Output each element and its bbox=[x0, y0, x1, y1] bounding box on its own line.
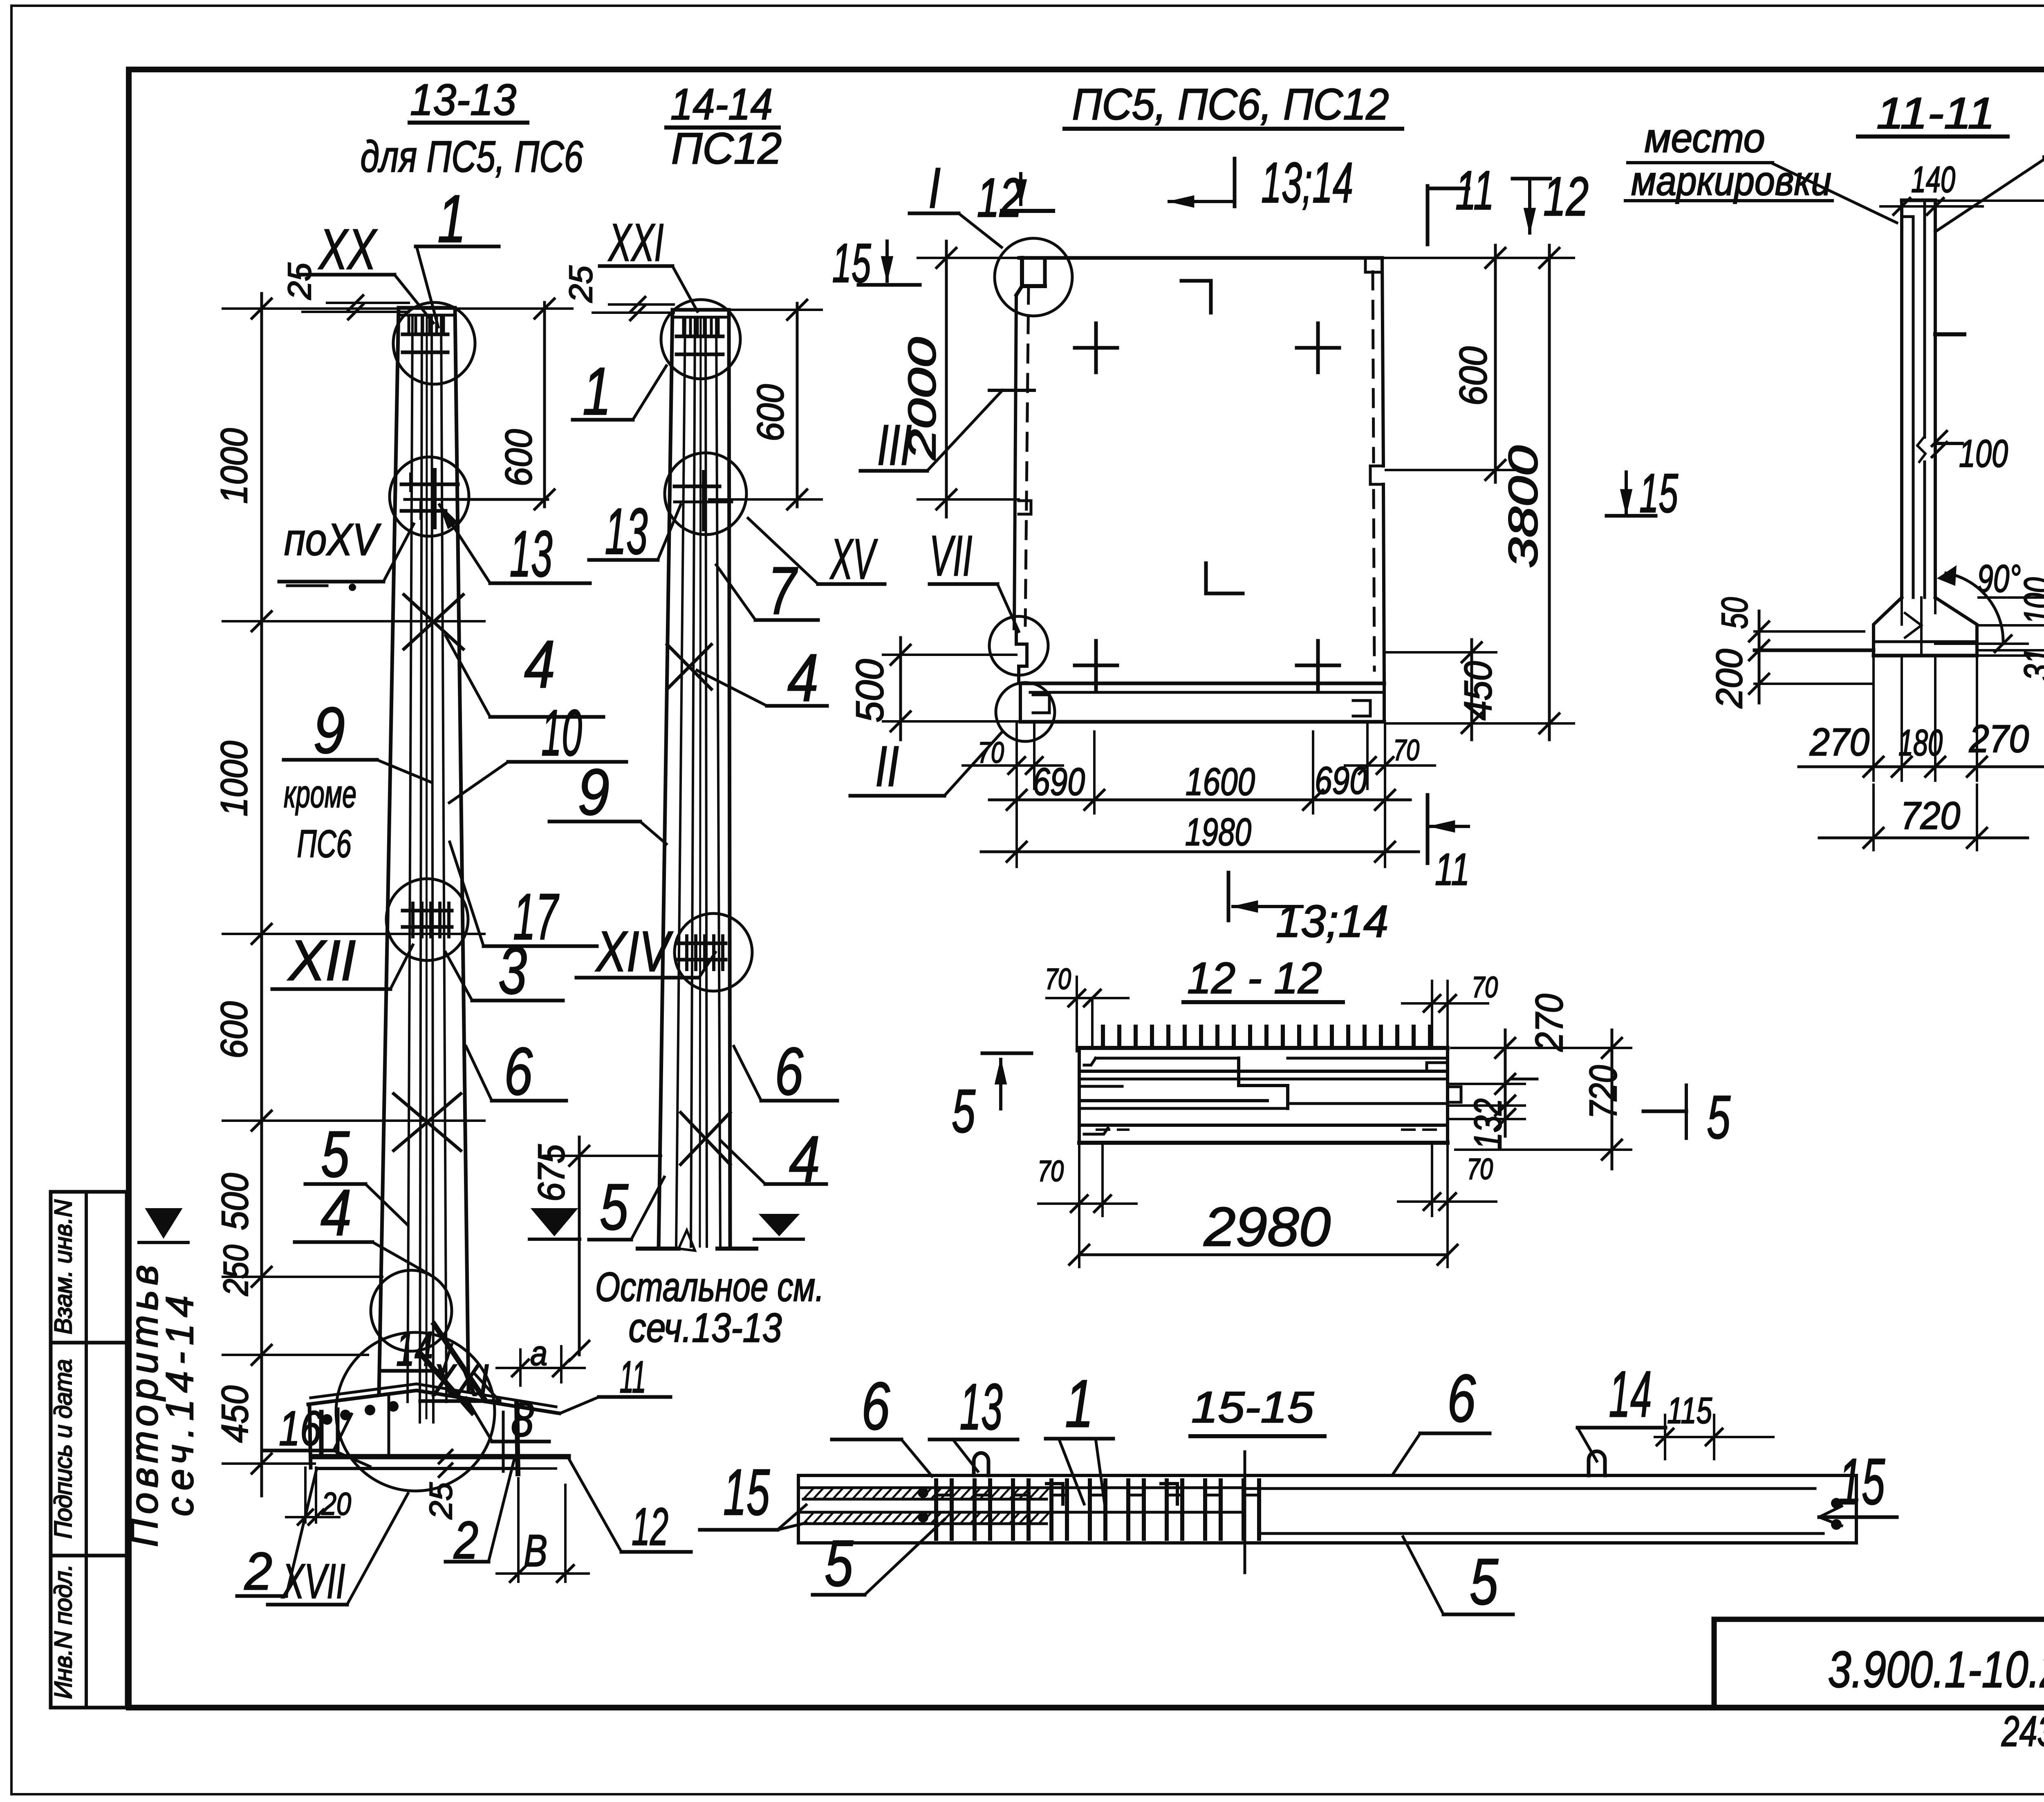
svg-text:3800: 3800 bbox=[1500, 445, 1546, 568]
svg-text:9: 9 bbox=[578, 755, 610, 828]
svg-text:20: 20 bbox=[321, 1486, 351, 1522]
svg-text:100: 100 bbox=[1959, 432, 2008, 475]
svg-text:13: 13 bbox=[605, 495, 648, 568]
svg-text:3: 3 bbox=[498, 933, 527, 1008]
svg-text:180: 180 bbox=[1898, 723, 1943, 763]
svg-text:500: 500 bbox=[214, 1173, 256, 1230]
svg-text:13-13: 13-13 bbox=[410, 75, 516, 124]
svg-text:1980: 1980 bbox=[1185, 810, 1251, 854]
svg-text:500: 500 bbox=[848, 659, 892, 722]
svg-text:Остальное см.: Остальное см. bbox=[595, 1264, 824, 1310]
svg-text:13;14: 13;14 bbox=[1276, 896, 1388, 947]
svg-text:2000: 2000 bbox=[901, 337, 944, 461]
svg-text:11-11: 11-11 bbox=[1876, 88, 1995, 138]
svg-text:7: 7 bbox=[768, 553, 798, 628]
svg-text:6: 6 bbox=[861, 1368, 890, 1444]
svg-text:5: 5 bbox=[1470, 1545, 1499, 1618]
svg-text:Инв.N подл.: Инв.N подл. bbox=[49, 1564, 77, 1699]
svg-text:VII: VII bbox=[930, 524, 973, 588]
svg-text:250: 250 bbox=[217, 1245, 255, 1296]
svg-text:25: 25 bbox=[563, 265, 599, 303]
svg-text:1000: 1000 bbox=[213, 741, 255, 817]
svg-text:1000: 1000 bbox=[213, 428, 255, 504]
svg-text:600: 600 bbox=[750, 384, 791, 441]
svg-text:90°: 90° bbox=[1977, 557, 2021, 600]
svg-text:4: 4 bbox=[787, 640, 818, 715]
svg-text:2: 2 bbox=[244, 1541, 272, 1601]
svg-text:70: 70 bbox=[1038, 1155, 1064, 1188]
svg-text:70: 70 bbox=[1472, 971, 1498, 1004]
svg-text:12 - 12: 12 - 12 bbox=[1187, 953, 1322, 1003]
svg-text:a: a bbox=[530, 1334, 547, 1373]
svg-text:6: 6 bbox=[1447, 1361, 1476, 1436]
svg-text:1600: 1600 bbox=[1186, 760, 1255, 804]
svg-text:15: 15 bbox=[723, 1455, 770, 1529]
svg-text:100: 100 bbox=[2017, 578, 2044, 625]
svg-text:600: 600 bbox=[213, 1001, 255, 1059]
svg-text:15-15: 15-15 bbox=[1191, 1382, 1314, 1432]
svg-text:1: 1 bbox=[583, 354, 611, 429]
svg-text:70: 70 bbox=[1393, 734, 1419, 767]
svg-text:15: 15 bbox=[1639, 462, 1679, 524]
svg-text:25: 25 bbox=[281, 262, 318, 300]
svg-text:70: 70 bbox=[1467, 1153, 1493, 1186]
svg-text:II: II bbox=[875, 734, 899, 798]
svg-text:маркировки: маркировки bbox=[1631, 158, 1831, 204]
svg-text:115: 115 bbox=[1667, 1390, 1712, 1431]
svg-text:720: 720 bbox=[1901, 794, 1960, 837]
svg-text:ПС12: ПС12 bbox=[671, 123, 782, 173]
svg-text:ПС5, ПС6, ПС12: ПС5, ПС6, ПС12 bbox=[1072, 79, 1389, 129]
svg-text:600: 600 bbox=[498, 429, 540, 486]
svg-text:70: 70 bbox=[1045, 963, 1071, 996]
svg-text:5: 5 bbox=[600, 1170, 629, 1243]
svg-text:4: 4 bbox=[524, 627, 555, 702]
svg-text:сеч.13-13: сеч.13-13 bbox=[629, 1305, 782, 1351]
svg-text:13;14: 13;14 bbox=[1261, 150, 1353, 215]
svg-text:14-14: 14-14 bbox=[670, 79, 773, 129]
svg-text:16: 16 bbox=[279, 1401, 321, 1456]
svg-text:31: 31 bbox=[2017, 648, 2044, 681]
svg-text:270: 270 bbox=[1528, 994, 1571, 1052]
svg-text:450: 450 bbox=[1457, 661, 1500, 720]
svg-text:140: 140 bbox=[1911, 159, 1955, 200]
svg-text:720: 720 bbox=[1582, 1065, 1625, 1119]
svg-text:25: 25 bbox=[423, 1482, 459, 1520]
svg-text:12: 12 bbox=[977, 167, 1022, 228]
svg-text:6: 6 bbox=[775, 1034, 803, 1109]
svg-text:450: 450 bbox=[214, 1386, 256, 1443]
svg-text:690: 690 bbox=[1315, 759, 1367, 802]
svg-text:3.900.1-10.2-5-03.00: 3.900.1-10.2-5-03.00 bbox=[1828, 1641, 2044, 1698]
svg-text:10: 10 bbox=[541, 696, 582, 769]
svg-text:5: 5 bbox=[825, 1527, 854, 1600]
svg-text:4: 4 bbox=[320, 1176, 352, 1249]
svg-text:место: место bbox=[1645, 115, 1765, 161]
svg-text:5: 5 bbox=[1707, 1083, 1730, 1151]
svg-text:для ПС5, ПС6: для ПС5, ПС6 bbox=[361, 132, 584, 181]
svg-text:13: 13 bbox=[510, 517, 553, 590]
svg-text:XII: XII bbox=[287, 928, 356, 992]
svg-text:2980: 2980 bbox=[1204, 1196, 1331, 1258]
svg-text:XX: XX bbox=[318, 217, 378, 281]
svg-text:Взам. инв.N: Взам. инв.N bbox=[49, 1199, 77, 1334]
svg-text:В: В bbox=[524, 1526, 547, 1576]
svg-text:сеч.14-14: сеч.14-14 bbox=[158, 1296, 202, 1516]
svg-text:14: 14 bbox=[396, 1321, 433, 1376]
svg-text:I: I bbox=[928, 156, 941, 220]
svg-text:XIV: XIV bbox=[595, 919, 674, 983]
svg-text:5: 5 bbox=[952, 1077, 975, 1145]
svg-text:132: 132 bbox=[1466, 1099, 1510, 1150]
svg-text:14: 14 bbox=[1609, 1357, 1652, 1430]
svg-text:13: 13 bbox=[960, 1370, 1003, 1443]
svg-text:200: 200 bbox=[1709, 649, 1750, 709]
svg-text:675: 675 bbox=[531, 1144, 572, 1202]
svg-text:690: 690 bbox=[1033, 760, 1085, 804]
svg-text:8: 8 bbox=[511, 1392, 534, 1447]
svg-text:15: 15 bbox=[1838, 1445, 1885, 1518]
svg-text:11: 11 bbox=[1435, 844, 1470, 895]
svg-text:12: 12 bbox=[632, 1497, 668, 1556]
svg-text:Подпись и дата: Подпись и дата bbox=[49, 1359, 77, 1539]
svg-text:24398-01: 24398-01 bbox=[2001, 1708, 2044, 1755]
svg-text:9: 9 bbox=[313, 694, 345, 767]
svg-text:50: 50 bbox=[1715, 597, 1755, 629]
svg-text:ПС6: ПС6 bbox=[297, 822, 352, 866]
svg-text:11: 11 bbox=[1455, 159, 1494, 221]
svg-text:1: 1 bbox=[1065, 1366, 1094, 1441]
svg-text:70: 70 bbox=[978, 736, 1004, 769]
svg-text:кроме: кроме bbox=[284, 772, 356, 816]
svg-text:11: 11 bbox=[620, 1352, 646, 1402]
svg-text:6: 6 bbox=[504, 1034, 533, 1109]
svg-text:поXV: поXV bbox=[284, 515, 381, 565]
svg-text:600: 600 bbox=[1452, 346, 1495, 405]
svg-text:270: 270 bbox=[1809, 721, 1869, 764]
svg-text:270: 270 bbox=[1969, 717, 2029, 761]
svg-text:12: 12 bbox=[1543, 166, 1589, 227]
svg-text:XV: XV bbox=[829, 527, 878, 591]
svg-text:XXI: XXI bbox=[608, 213, 664, 272]
